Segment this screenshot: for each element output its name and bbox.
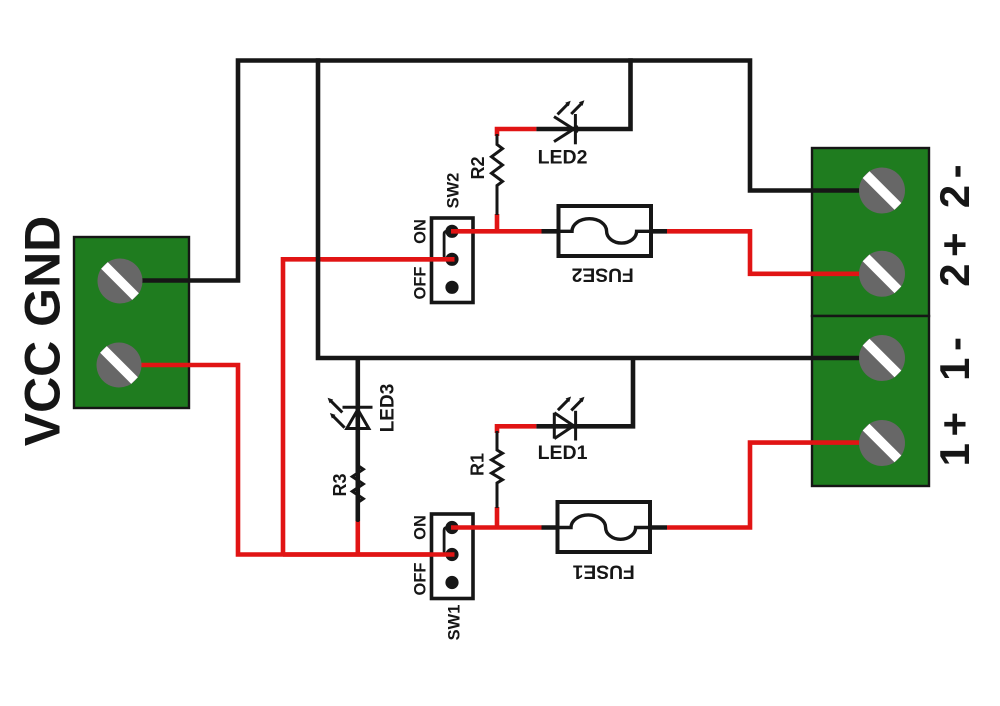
svg-text:LED3: LED3 xyxy=(378,384,399,433)
svg-text:FUSE1: FUSE1 xyxy=(572,561,634,582)
svg-text:SW2: SW2 xyxy=(444,173,462,209)
svg-text:OFF: OFF xyxy=(411,563,429,596)
svg-text:SW1: SW1 xyxy=(446,605,464,641)
svg-text:OFF: OFF xyxy=(411,267,429,300)
svg-text:FUSE2: FUSE2 xyxy=(572,263,634,284)
svg-text:2+: 2+ xyxy=(931,226,978,287)
svg-text:1+: 1+ xyxy=(931,405,978,466)
svg-text:2-: 2- xyxy=(931,158,978,208)
svg-text:ON: ON xyxy=(411,219,429,244)
svg-text:R3: R3 xyxy=(330,473,350,496)
svg-text:R1: R1 xyxy=(468,453,488,476)
svg-text:ON: ON xyxy=(411,515,429,540)
svg-text:LED1: LED1 xyxy=(538,442,588,464)
svg-text:LED2: LED2 xyxy=(538,147,588,169)
svg-text:VCC GND: VCC GND xyxy=(15,216,71,447)
svg-text:1-: 1- xyxy=(931,331,978,381)
svg-text:R2: R2 xyxy=(468,156,488,179)
